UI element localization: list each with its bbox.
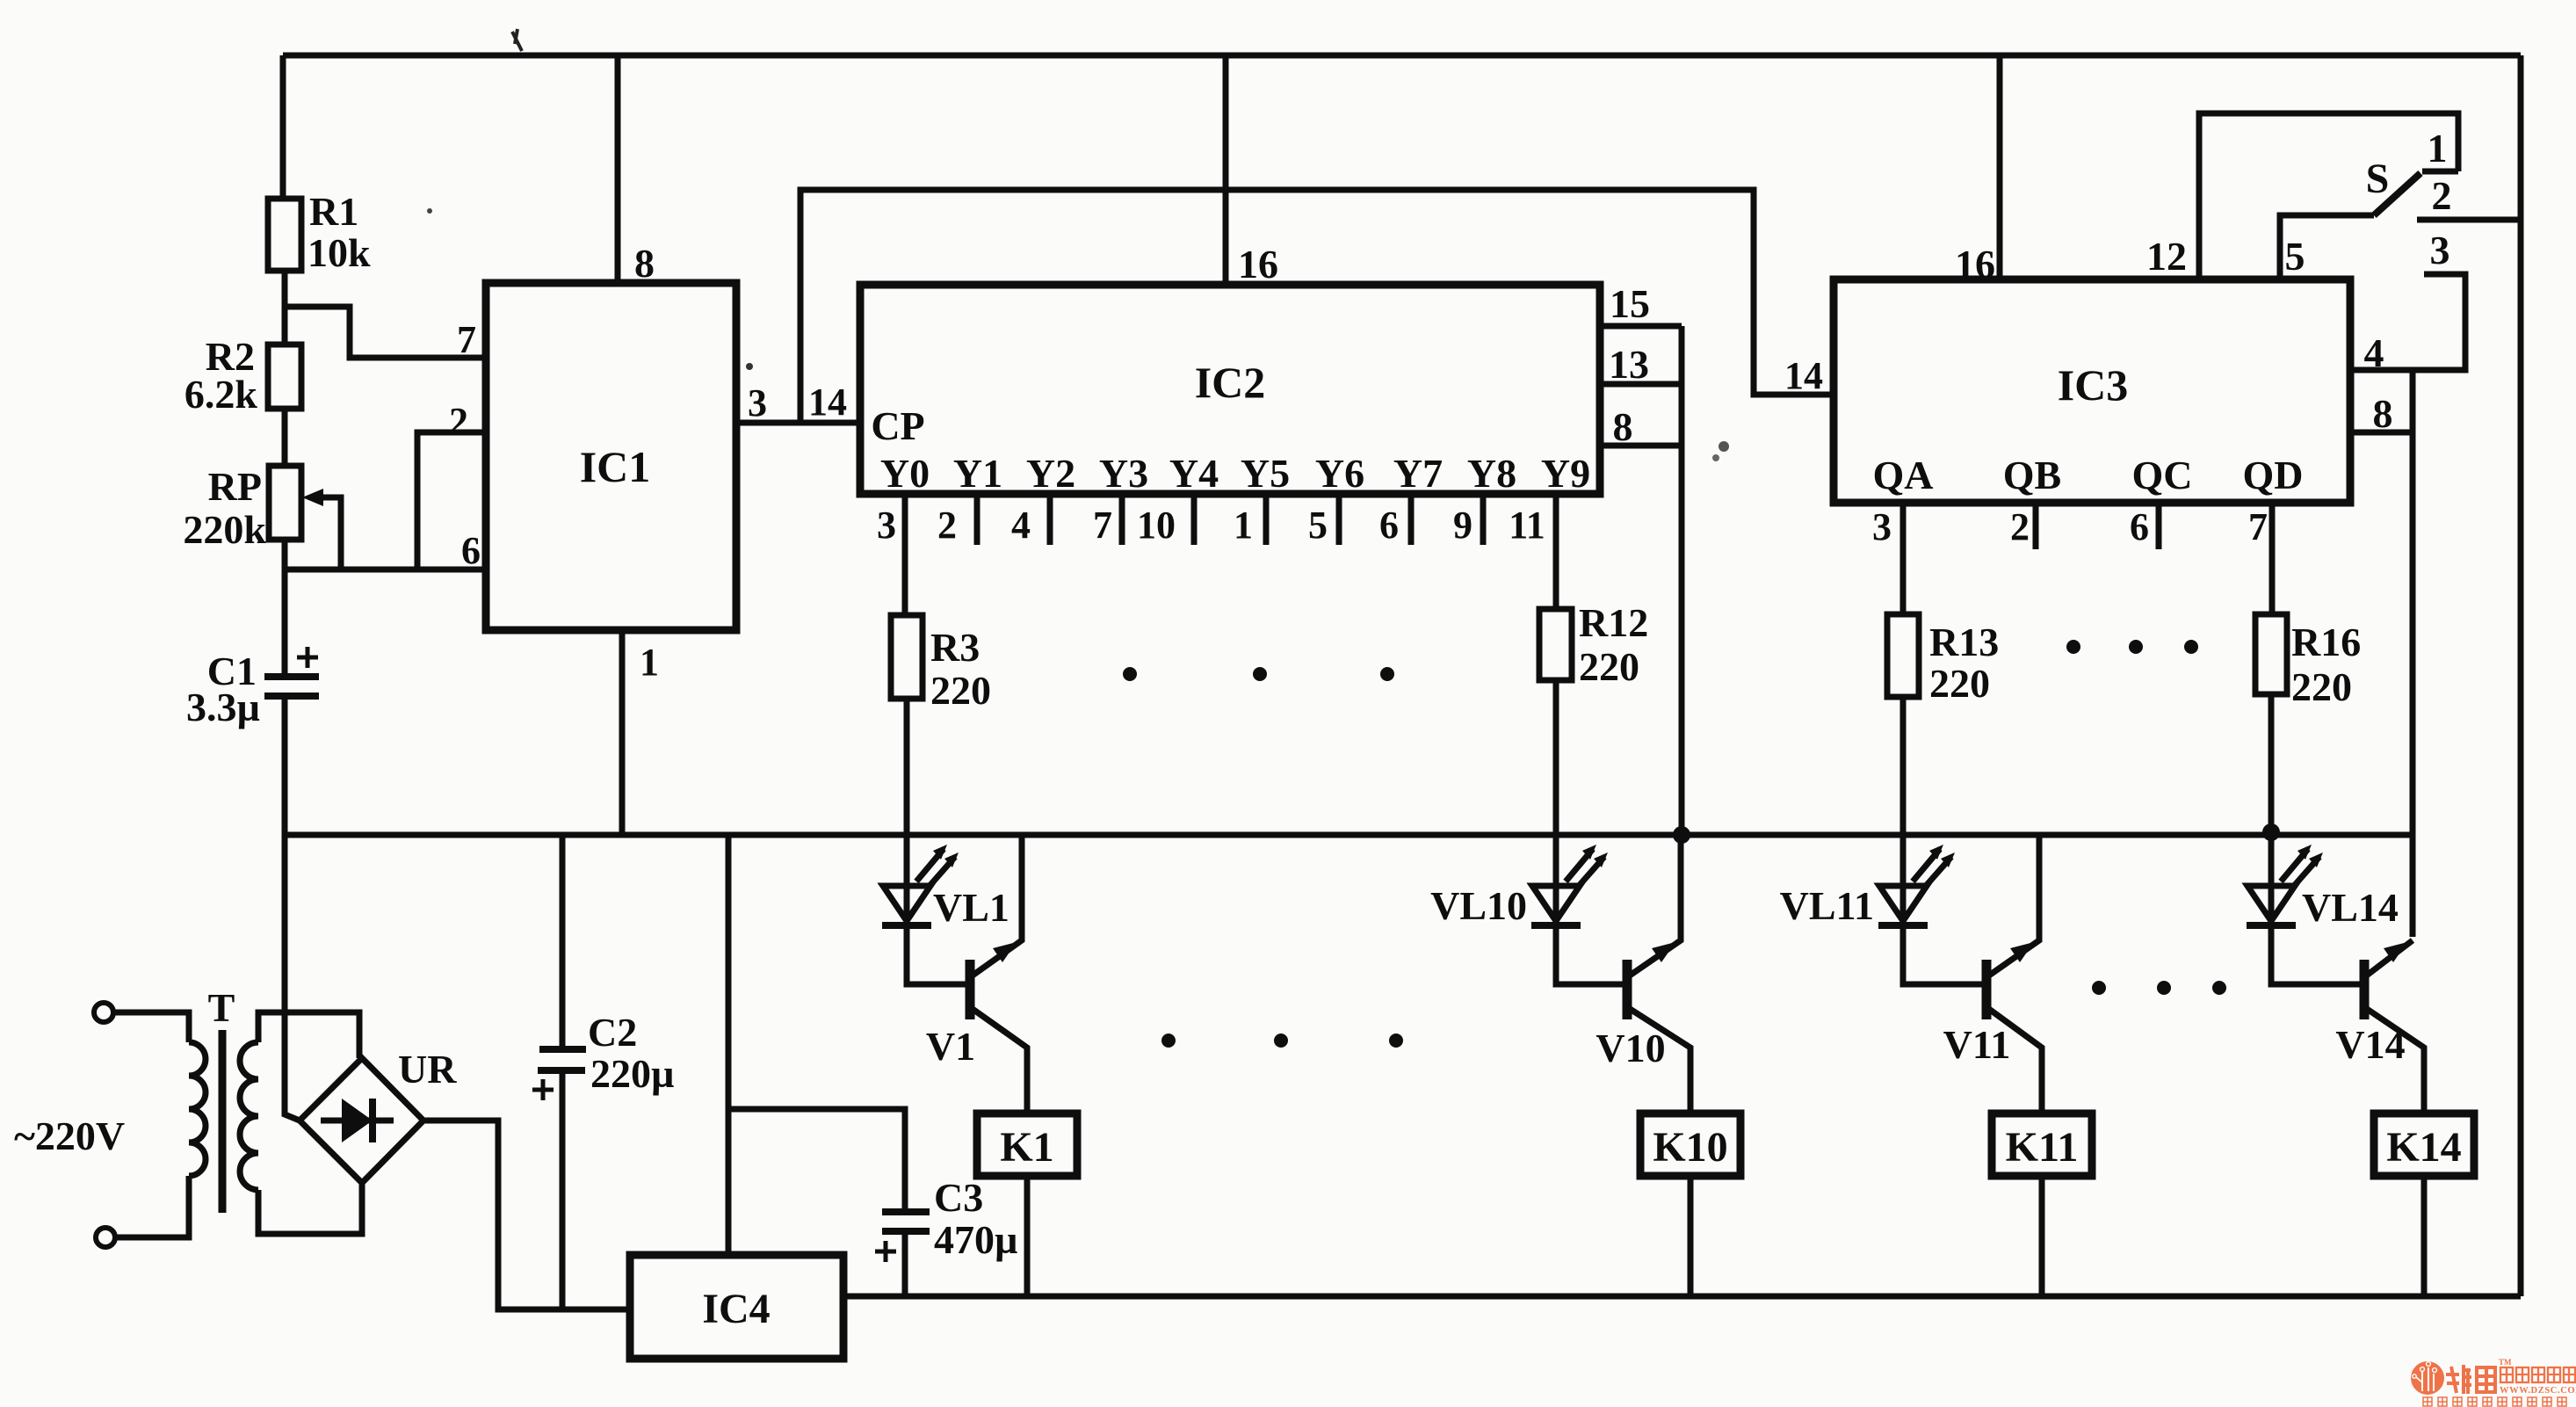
wire VL11 to V11 base: [1903, 925, 1982, 984]
decade counter IC3: [1834, 279, 2350, 503]
wire IC1 pin 2: [417, 432, 486, 569]
svg-text:16: 16: [1955, 242, 1995, 286]
transistor V10: [1627, 835, 1690, 1113]
ellipsis dots between V11 and V14: [2092, 981, 2106, 995]
svg-text:2: 2: [2432, 173, 2452, 218]
svg-text:6: 6: [461, 529, 481, 572]
transformer T primary terminal top: [94, 1003, 113, 1022]
switch S contact 3 to IC3 pin 4: [2350, 274, 2465, 370]
wire IC4 top to mid rail: [726, 835, 732, 1255]
wire C2 top to mid rail: [560, 835, 566, 1049]
svg-text:1: 1: [640, 641, 659, 684]
wire C2 bottom: [560, 1070, 566, 1309]
svg-text:Y9: Y9: [1541, 451, 1590, 496]
wire IC3 QA pin 3 stub: [1900, 503, 1907, 614]
svg-text:IC2: IC2: [1195, 358, 1266, 407]
svg-text:5: 5: [1308, 504, 1328, 547]
ellipsis dots between R13 and R16: [2066, 640, 2080, 654]
wire terminal to primary bottom: [115, 1176, 189, 1237]
wire C1 to mid rail and bridge: [285, 696, 300, 1121]
svg-text:6: 6: [1379, 504, 1399, 547]
wire IC1 pin 3 to IC2 CP: [736, 420, 860, 426]
svg-text:R13: R13: [1929, 620, 1999, 664]
wire IC1 pin 1: [619, 630, 626, 835]
svg-text:WWW.DZSC.COM: WWW.DZSC.COM: [2500, 1386, 2576, 1396]
watermark row glyphs: [2500, 1367, 2575, 1382]
svg-text:4: 4: [2364, 330, 2384, 375]
svg-text:TM: TM: [2499, 1358, 2512, 1367]
wire K1 to ground rail: [1024, 1176, 1031, 1296]
svg-text:10: 10: [1137, 504, 1176, 547]
wire C3 to ground rail: [902, 1231, 908, 1296]
scan speck mark: [512, 29, 522, 51]
svg-text:7: 7: [457, 318, 476, 361]
wire VL1 to V1 base: [907, 925, 966, 984]
wire IC2 pin 13: [1600, 381, 1682, 388]
wire IC2 Y6 pin 5 stub: [1336, 494, 1342, 545]
wire IC3 pin 12 riser to switch contact 1: [2199, 113, 2458, 279]
transformer T primary terminal bottom: [96, 1228, 115, 1247]
ellipsis dots between R3 and R12: [1123, 667, 1137, 681]
svg-text:Y8: Y8: [1467, 451, 1516, 496]
wire IC2 Y0 pin 3 stub: [902, 494, 908, 615]
capacitor C3: [882, 1208, 930, 1215]
watermark brand glyph wei: [2446, 1365, 2471, 1394]
svg-text:V10: V10: [1596, 1026, 1665, 1070]
wire VL10 to V10 base: [1556, 925, 1623, 984]
wire K14 to ground rail: [2421, 1176, 2428, 1296]
wire IC3 QC pin 6 stub: [2156, 503, 2162, 549]
svg-text:Y7: Y7: [1393, 451, 1443, 496]
transistor V11: [1986, 835, 2042, 1113]
resistor R16: [2255, 614, 2287, 694]
svg-text:R16: R16: [2291, 620, 2361, 664]
svg-text:K14: K14: [2386, 1124, 2461, 1171]
op-amp timer IC1: [486, 283, 736, 630]
switch S contact 2 line to border: [2417, 217, 2521, 223]
resistor R3: [891, 615, 923, 699]
svg-text:8: 8: [1613, 404, 1633, 449]
svg-text:V1: V1: [926, 1024, 975, 1069]
svg-text:QB: QB: [2003, 453, 2061, 497]
svg-text:QC: QC: [2132, 453, 2193, 497]
C2 polarity plus: [532, 1079, 554, 1100]
wire bottom ground rail: [843, 1294, 2521, 1300]
wire CP riser to IC3 pin 14: [800, 190, 1834, 423]
wire top supply rail: [283, 53, 2521, 59]
scan smudge: [1719, 441, 1729, 452]
relay K10: [1640, 1113, 1740, 1176]
wire IC2 Y2 pin 4 stub: [1047, 494, 1053, 545]
wire IC3 QB pin 2 stub: [2033, 503, 2039, 549]
wire IC2 Y8 pin 9 stub: [1480, 494, 1487, 545]
transformer T secondary winding: [240, 1042, 258, 1190]
svg-text:IC4: IC4: [702, 1286, 770, 1332]
watermark slogan glyphs: [2423, 1397, 2566, 1406]
wire IC2 Y1 pin 2 stub: [974, 494, 980, 545]
switch S contact 1: [2422, 169, 2458, 175]
svg-text:12: 12: [2146, 234, 2187, 279]
svg-text:~220V: ~220V: [14, 1113, 125, 1158]
svg-text:3: 3: [1872, 505, 1892, 548]
svg-text:K1: K1: [1000, 1124, 1053, 1171]
svg-text:Y3: Y3: [1099, 451, 1148, 496]
LED VL14: [2247, 845, 2323, 925]
svg-text:11: 11: [1509, 504, 1545, 547]
decade counter IC2: [860, 285, 1600, 494]
svg-text:IC1: IC1: [580, 442, 651, 491]
svg-text:R1: R1: [309, 189, 358, 234]
svg-text:QD: QD: [2243, 453, 2304, 497]
wire top rail to R1: [280, 55, 286, 199]
svg-text:V14: V14: [2335, 1022, 2405, 1067]
switch S arm: [2374, 173, 2420, 215]
svg-text:16: 16: [1238, 242, 1278, 286]
wire IC2 pin 16: [1223, 55, 1229, 285]
svg-text:3: 3: [748, 381, 767, 424]
svg-text:6: 6: [2130, 505, 2149, 548]
wire IC3 QD pin 7 stub: [2269, 503, 2276, 614]
svg-text:1: 1: [1234, 504, 1253, 547]
wire IC2 Y3 pin 7 stub: [1119, 494, 1125, 545]
LED VL10: [1531, 845, 1608, 925]
resistor R1: [268, 199, 301, 271]
svg-text:10k: 10k: [308, 230, 371, 275]
svg-text:15: 15: [1610, 281, 1650, 326]
svg-text:VL1: VL1: [933, 885, 1009, 930]
svg-text:220: 220: [930, 668, 991, 713]
wire R3 to LED VL1: [904, 699, 910, 888]
wire mid supply rail: [285, 832, 2413, 838]
voltage regulator IC4: [630, 1255, 843, 1359]
wire IC1 pin 6: [285, 567, 486, 573]
watermark logo circle: [2411, 1361, 2444, 1395]
svg-text:S: S: [2366, 156, 2390, 202]
wire right border: [2518, 55, 2524, 1296]
capacitor C2: [539, 1046, 586, 1053]
svg-text:V11: V11: [1943, 1022, 2011, 1067]
svg-text:220: 220: [1929, 661, 1990, 706]
wire IC1 pin 7: [285, 307, 486, 358]
junction dot R16 line on mid rail: [2262, 823, 2280, 841]
relay K1: [977, 1113, 1077, 1176]
svg-text:CP: CP: [871, 403, 924, 448]
wire terminal to primary: [113, 1012, 189, 1042]
wire R13 to LED VL11: [1900, 697, 1907, 888]
wire secondary top to bridge: [258, 1012, 359, 1058]
svg-text:T: T: [208, 985, 235, 1030]
svg-text:Y1: Y1: [953, 451, 1002, 496]
wire IC2 pin 15: [1600, 323, 1682, 330]
junction dot pin8 bus / rail / V10 collector: [1673, 826, 1690, 844]
svg-text:Y4: Y4: [1169, 451, 1219, 496]
potentiometer RP body: [269, 466, 301, 540]
scan speck dot: [427, 208, 432, 214]
svg-text:R3: R3: [930, 625, 980, 670]
svg-text:7: 7: [2248, 505, 2268, 548]
svg-text:IC3: IC3: [2058, 360, 2129, 410]
svg-text:Y5: Y5: [1241, 451, 1290, 496]
svg-text:5: 5: [2285, 234, 2305, 279]
wire switch common to IC3 pin 5: [2280, 215, 2374, 279]
wire R2 to RP: [282, 409, 288, 466]
wire IC2 pin8 bus to mid rail: [1679, 326, 1685, 835]
wire secondary bottom to bridge: [258, 1183, 362, 1234]
svg-text:6.2k: 6.2k: [185, 372, 258, 417]
svg-text:8: 8: [2373, 391, 2393, 436]
svg-text:QA: QA: [1873, 453, 1934, 497]
svg-text:220k: 220k: [183, 507, 266, 552]
svg-text:R12: R12: [1579, 600, 1648, 645]
C3 polarity plus: [875, 1241, 896, 1262]
wire IC3 pin 16: [1997, 55, 2003, 279]
svg-text:K11: K11: [2006, 1124, 2079, 1171]
ellipsis dots between V1 and V10: [1161, 1033, 1176, 1048]
wire IC3 pin 8: [2350, 430, 2413, 436]
wire VL14 to V14 base: [2271, 925, 2360, 984]
potentiometer RP wiper arrow: [318, 497, 341, 569]
C1 polarity plus: [297, 647, 318, 668]
transformer T primary winding: [189, 1042, 206, 1176]
wire RP to C1: [282, 540, 288, 677]
svg-text:C3: C3: [934, 1175, 983, 1220]
relay K11: [1992, 1113, 2092, 1176]
bridge rectifier UR: [300, 1058, 423, 1183]
wire IC2 Y4 pin 10 stub: [1191, 494, 1198, 545]
svg-text:C2: C2: [588, 1010, 637, 1055]
watermark brand glyph ku: [2477, 1367, 2495, 1392]
wire K10 to ground rail: [1688, 1176, 1694, 1296]
svg-text:220: 220: [1579, 644, 1639, 689]
svg-text:2: 2: [449, 400, 468, 443]
svg-text:3.3µ: 3.3µ: [186, 685, 260, 729]
wire K11 to ground rail: [2039, 1176, 2045, 1296]
svg-text:4: 4: [1011, 504, 1031, 547]
svg-text:470µ: 470µ: [934, 1217, 1018, 1262]
wire IC2 Y9 pin 11 stub: [1553, 494, 1559, 609]
svg-text:VL10: VL10: [1430, 883, 1527, 928]
wire IC1 pin 8: [615, 55, 621, 283]
wire R1 to R2: [282, 271, 288, 344]
relay K14: [2374, 1113, 2474, 1176]
transistor V14: [2364, 940, 2424, 1113]
svg-text:220: 220: [2291, 664, 2352, 709]
wire IC2 Y5 pin 1 stub: [1263, 494, 1270, 545]
svg-text:K10: K10: [1653, 1124, 1727, 1171]
svg-text:UR: UR: [398, 1047, 457, 1092]
scan speck dot: [746, 363, 753, 370]
svg-text:13: 13: [1609, 342, 1649, 387]
svg-text:Y0: Y0: [880, 451, 930, 496]
wire R16 to LED VL14: [2268, 694, 2275, 888]
svg-text:VL14: VL14: [2302, 885, 2399, 930]
svg-text:2: 2: [937, 504, 957, 547]
resistor R2: [268, 344, 301, 409]
svg-text:2: 2: [2010, 505, 2030, 548]
svg-text:Y2: Y2: [1026, 451, 1075, 496]
svg-text:7: 7: [1093, 504, 1112, 547]
wire IC3 pin4/8 bus down to V14 collector: [2410, 370, 2416, 937]
svg-text:RP: RP: [208, 464, 262, 509]
resistor R12: [1539, 609, 1572, 680]
svg-text:3: 3: [2430, 228, 2450, 272]
wire R12 to LED VL10: [1553, 680, 1559, 888]
svg-text:14: 14: [808, 381, 847, 424]
svg-text:1: 1: [2428, 126, 2448, 170]
svg-text:VL11: VL11: [1780, 883, 1874, 928]
svg-text:220µ: 220µ: [590, 1051, 675, 1096]
svg-text:Y6: Y6: [1315, 451, 1364, 496]
wire branch to C3: [728, 1109, 905, 1212]
resistor R13: [1887, 614, 1919, 697]
svg-text:8: 8: [634, 241, 655, 286]
LED VL1: [882, 845, 959, 925]
wire bridge output to IC4: [423, 1121, 630, 1309]
wire IC2 Y7 pin 6 stub: [1408, 494, 1415, 545]
svg-text:14: 14: [1784, 354, 1823, 397]
wire IC2 pin 8: [1600, 443, 1682, 449]
svg-text:3: 3: [877, 504, 896, 547]
transformer T core: [219, 1030, 227, 1213]
LED VL11: [1878, 845, 1955, 925]
svg-text:9: 9: [1453, 504, 1473, 547]
transistor V1: [970, 835, 1027, 1113]
capacitor C1: [264, 673, 319, 680]
